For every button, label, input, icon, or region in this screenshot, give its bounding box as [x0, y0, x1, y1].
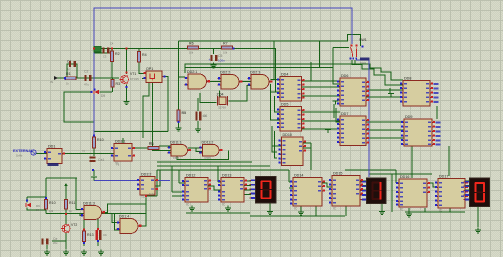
wire DD3:2 right a	[155, 170, 160, 186]
wire VD2 top link	[27, 196, 46, 198]
wire gate DD1:4 in a	[112, 214, 121, 223]
wire OP1 pin2 stub	[142, 77, 146, 79]
svg-text:Ca1: Ca1	[98, 158, 104, 162]
wire top rail outer y=41 over SW1	[179, 35, 361, 47]
wire R9 gnd stub	[178, 121, 180, 126]
generator EXTERNAL input	[13, 149, 36, 158]
node R13 bottom	[83, 242, 85, 244]
wire R11 top drop	[45, 178, 47, 200]
capacitor Ce	[42, 237, 58, 244]
svg-text:47u: 47u	[84, 83, 89, 87]
ground gnd C5	[211, 63, 217, 68]
resistor R4	[137, 52, 146, 63]
wire DD16 gnd drop	[408, 208, 410, 212]
wire DD6-DD8 b	[366, 96, 403, 98]
node R7 out	[233, 48, 235, 50]
wire DD4-DD5 cascade a	[275, 96, 281, 112]
wire disp1 a	[244, 180, 251, 182]
svg-text:R2: R2	[115, 52, 120, 56]
wire DD6 feed v	[310, 62, 312, 81]
wire DD12 in c	[172, 195, 185, 197]
wire DD1:4 out up	[139, 194, 146, 226]
wire bus A to DD8 staircase	[185, 64, 403, 80]
wire node NdV stub	[146, 195, 157, 197]
wire gate DD1:4 in b	[115, 214, 121, 230]
svg-text:DD8: DD8	[404, 77, 411, 81]
wire DD5-DD7 q3	[302, 128, 340, 130]
diode VD1	[94, 90, 106, 98]
wire DD7 top feed	[336, 108, 340, 122]
wire DD14 in a	[289, 181, 293, 183]
capacitor C1	[69, 61, 76, 67]
wire bottom trunk analog	[94, 131, 168, 133]
ground gnd HG2	[379, 209, 385, 214]
svg-text:K555: K555	[173, 156, 180, 160]
wire blue clock net: left vertical + top rail + switch drop	[94, 8, 352, 137]
node rail-blue junction	[93, 48, 95, 50]
wire crystal to gate3 input	[229, 86, 252, 102]
wire gate out up	[105, 204, 146, 212]
resistor R13	[82, 231, 93, 242]
wire rail drop x=274	[273, 41, 275, 79]
svg-text:1M: 1M	[182, 111, 186, 115]
wire R3 top stub	[112, 78, 114, 80]
svg-text:R4: R4	[142, 53, 147, 57]
IC DD16	[396, 175, 430, 211]
label DD1 sub-label	[48, 163, 59, 166]
wire DD16 feed v	[395, 170, 397, 183]
wire SW1 left contact feed	[333, 47, 349, 49]
wire bus B	[185, 67, 333, 69]
wire gen to DD1	[36, 153, 47, 155]
svg-text:DD11:1: DD11:1	[170, 140, 182, 144]
wire SW1 pole drop 2	[354, 60, 356, 65]
ground gnd DD16	[406, 212, 412, 217]
node VD1 left	[94, 89, 96, 91]
wire VT1 emitter	[126, 85, 128, 100]
wire rail drop x=319.5	[319, 41, 321, 68]
svg-text:D9: D9	[36, 204, 40, 208]
svg-text:VT2: VT2	[71, 223, 77, 227]
wire DD5-DD10 cascade	[272, 126, 277, 152]
wire Ca1 to pwr	[93, 170, 95, 176]
svg-text:VT1: VT1	[130, 72, 136, 76]
label SW1 sub-label	[360, 58, 369, 61]
svg-text:DD3:2: DD3:2	[141, 172, 151, 176]
svg-text:IN: IN	[50, 80, 53, 84]
svg-text:R6: R6	[189, 42, 194, 46]
wire gate3 to DD4	[271, 79, 281, 81]
wire DD16 bus drop	[424, 208, 426, 212]
node NdV	[145, 195, 147, 197]
svg-text:R11: R11	[69, 201, 75, 205]
wire DD17 bus drop	[449, 208, 451, 212]
wire blue net to DD3:2 pin (horizontal y=180.5)	[94, 180, 140, 182]
7-segment display HG2	[360, 178, 386, 205]
wire DD10 out drop	[310, 143, 312, 170]
resistor R11	[44, 200, 55, 210]
wire C6 top	[197, 98, 199, 111]
wire DD11:2 in b jog	[196, 148, 203, 152]
wire DD6 top feed	[333, 48, 340, 85]
wire OP1 drop to DD11:1	[153, 83, 172, 151]
svg-text:DD9: DD9	[405, 115, 412, 119]
crystal ZQ4	[217, 93, 228, 106]
svg-text:DD17: DD17	[439, 175, 448, 179]
wire trunk drop DD12a	[178, 170, 180, 183]
wire R12 bottom to trunk	[65, 209, 67, 214]
svg-text:DD6: DD6	[341, 74, 348, 78]
svg-text:DD5: DD5	[281, 103, 288, 107]
IC DD15	[329, 172, 363, 211]
wire DD15 bus drop	[345, 206, 347, 216]
svg-text:DD1:4: DD1:4	[119, 214, 129, 218]
wire DD12-DD13 link	[208, 186, 221, 190]
logic gate DD2:1	[185, 70, 211, 89]
wire DD4-DD6 q3	[302, 95, 340, 97]
svg-text:DD16: DD16	[400, 175, 409, 179]
wire top rail inner y=48.5	[94, 49, 276, 93]
wire DD11 cross loop	[177, 150, 229, 159]
svg-text:32768: 32768	[218, 106, 226, 110]
IC DD13	[218, 174, 247, 207]
IC DD1	[44, 145, 65, 164]
wire DD10 out a	[303, 142, 311, 144]
wire DD5-DD7 q2	[302, 120, 340, 122]
resistor R12	[64, 200, 75, 210]
svg-text:R10: R10	[49, 201, 56, 205]
wire Ce gnd drop	[46, 245, 48, 249]
svg-text:C4: C4	[110, 42, 114, 46]
svg-text:DD11:3: DD11:3	[83, 201, 95, 205]
resistor R5	[177, 110, 186, 121]
wire R12 top drop	[65, 184, 67, 199]
node R13 top	[83, 229, 85, 231]
node C7 bottom	[97, 240, 99, 242]
wire DD4-DD6 q2	[302, 86, 340, 88]
svg-text:DD13: DD13	[222, 174, 231, 178]
wire bottom-left trunk	[46, 213, 146, 215]
capacitor C5	[211, 54, 223, 61]
wire bottom bus right	[405, 211, 465, 213]
wire VT2 emitter	[65, 233, 67, 246]
wire DD4-DD6 q1	[302, 80, 340, 82]
wire DD7-DD9 c	[366, 137, 404, 139]
wire gate DD11:3 feed v	[75, 178, 77, 210]
resistor R8	[148, 142, 159, 150]
wire gate DD11:3 in b	[80, 214, 84, 216]
diode VD2	[25, 203, 40, 208]
svg-text:DD11:2: DD11:2	[202, 140, 214, 144]
wire OP1 out to divider	[162, 77, 168, 132]
svg-text:NdV: NdV	[149, 192, 155, 196]
node VT1 collector	[126, 72, 128, 74]
wire C6 gnd stub	[197, 121, 199, 127]
resistor R10	[92, 137, 103, 148]
wire bottom right trunk	[345, 169, 396, 171]
wire C7 bottom	[97, 240, 99, 246]
IC DD12	[182, 174, 211, 207]
svg-text:+: +	[209, 58, 211, 62]
wire DD14 bus drop	[315, 206, 317, 216]
wire DD11:1-2 link	[188, 147, 203, 149]
svg-text:DD1: DD1	[48, 145, 55, 149]
wire DD8 mid jog	[389, 88, 391, 93]
wire disp2 gnd drop	[381, 204, 383, 209]
resistor R1	[66, 72, 77, 80]
svg-text:SW1: SW1	[359, 38, 367, 42]
logic gate DD11:3	[81, 201, 106, 219]
wire DD14-DD15 link	[322, 183, 332, 187]
svg-text:R10: R10	[97, 138, 104, 142]
wire C5 drop	[213, 48, 215, 54]
wire DD16-DD17 link	[430, 183, 437, 187]
svg-text:DD10: DD10	[283, 133, 292, 137]
IC DD9	[401, 115, 440, 146]
node VT1 emitter	[126, 86, 128, 88]
wire R10 to Ca1	[93, 148, 95, 156]
ground gnd HG3	[475, 228, 481, 233]
svg-text:C2: C2	[84, 70, 88, 74]
svg-text:D9: D9	[101, 94, 105, 98]
node VT1 rail junction	[126, 48, 128, 50]
transistor VT2	[61, 223, 78, 233]
wire bias rail	[94, 52, 112, 54]
wire input signal	[57, 77, 119, 79]
svg-text:R8: R8	[149, 141, 153, 145]
IC DD3:1	[111, 140, 135, 166]
wire VT2 base drop	[65, 214, 67, 225]
transistor VT1	[119, 72, 136, 84]
wire R4 top stub	[138, 48, 140, 52]
resistor R3	[111, 80, 120, 88]
node R2 rail junction	[111, 48, 113, 50]
wire disp3 c	[465, 189, 470, 191]
ground gnd C7	[98, 250, 104, 255]
wire blue vertical from SW1 to display2 column	[356, 60, 369, 177]
svg-text:DD3:1: DD3:1	[115, 140, 125, 144]
wire DD13 in a	[218, 181, 221, 183]
svg-text:R13: R13	[87, 233, 94, 237]
svg-text:DD4: DD4	[281, 73, 288, 77]
wire disp1 d	[244, 194, 251, 196]
capacitor C7	[96, 230, 108, 240]
resistor R7	[222, 42, 233, 50]
svg-text:R3: R3	[116, 82, 121, 86]
wire bottom bus 2	[186, 212, 250, 214]
wire gate DD11:3 in a	[76, 209, 84, 211]
wire R11 bottom	[45, 210, 47, 214]
wire DD6-DD8 a	[366, 89, 403, 91]
wire C7 top	[97, 214, 99, 230]
wire gnd wire vt2	[65, 246, 67, 249]
svg-text:DD14: DD14	[294, 174, 303, 178]
logic gate DD1:4	[117, 214, 142, 233]
wire DD8-DD9 link	[436, 106, 438, 119]
wire disp3 d	[465, 194, 470, 196]
power rail stub pwr DD8	[388, 94, 394, 98]
wire R4 to OP1 pin	[139, 62, 146, 73]
7-segment display HG1	[249, 176, 276, 204]
capacitor Ca1	[90, 157, 105, 163]
node R10 top	[93, 135, 95, 137]
svg-text:xxxxx: xxxxx	[360, 62, 367, 65]
switch SW1	[350, 38, 367, 59]
IC DD6	[337, 74, 369, 106]
IC DD7	[337, 112, 369, 146]
power rail stub pwr DD10	[325, 130, 331, 134]
svg-text:Cb: Cb	[103, 233, 107, 237]
wire DD7-DD9 a	[366, 121, 404, 123]
wire NdV up	[156, 170, 158, 196]
wire R13 bottom	[83, 242, 85, 246]
capacitor C2	[84, 70, 91, 81]
svg-text:DD12: DD12	[186, 174, 195, 178]
logic gate DD11:2	[199, 140, 223, 156]
wire DD3:1 top stub	[122, 138, 124, 144]
node Ca1 bottom	[92, 169, 94, 171]
logic gate DD2:3	[248, 70, 273, 89]
power rail stub pwr div	[91, 177, 97, 181]
IC DD4	[277, 73, 305, 102]
node R5 bottom	[178, 121, 180, 123]
node VD1 left node	[91, 91, 93, 93]
svg-text:D9: D9	[36, 208, 40, 212]
wire right mid bus	[369, 173, 432, 175]
wire DD4 feedback	[271, 84, 281, 92]
wire gate2 to gate3	[241, 81, 251, 83]
resistor R6	[188, 42, 199, 50]
capacitor C3 (green block)	[94, 46, 101, 52]
wire C1 feedback loop	[67, 64, 77, 78]
svg-text:10k: 10k	[223, 51, 228, 55]
wire DD14 gnd drop	[300, 206, 302, 210]
svg-text:DD2:3: DD2:3	[250, 70, 260, 74]
wire disp3 a	[465, 180, 470, 182]
optocoupler OP1	[143, 67, 164, 83]
ground gnd Ce	[44, 250, 50, 255]
input terminal IN	[50, 76, 58, 84]
wire disp2 d	[360, 194, 367, 196]
wire DD14 in b	[289, 187, 293, 189]
svg-text:10k: 10k	[189, 51, 194, 55]
ground gnd R13	[81, 250, 87, 255]
wire VD2 loop	[27, 208, 46, 211]
svg-text:KT315: KT315	[130, 77, 139, 81]
svg-text:DD2:2: DD2:2	[220, 70, 230, 74]
wire VD1 row right	[100, 91, 113, 93]
wire DD2:1 in stub	[179, 76, 186, 78]
wire disp2 a	[360, 180, 367, 182]
power arrow R12	[64, 183, 68, 191]
logic gate DD11:1	[168, 140, 192, 156]
wire DD12 in b	[172, 191, 185, 193]
power rail stub pwr DD6-left	[333, 101, 339, 105]
svg-text:K555: K555	[205, 156, 212, 160]
svg-text:OP1: OP1	[146, 67, 153, 71]
wire DD10 in stub	[272, 145, 282, 147]
ground gnd VT2	[63, 250, 69, 255]
wire bottom bus 1	[250, 215, 345, 217]
wire DD14 feed	[288, 170, 290, 182]
ground gnd DD14	[298, 210, 304, 215]
svg-text:DD2:1: DD2:1	[187, 70, 197, 74]
wire R13 top	[83, 214, 85, 231]
wire mid trunk a	[157, 161, 252, 163]
wire preamp box top	[46, 177, 77, 179]
wire disp2 c	[360, 189, 367, 191]
wire mid trunk c	[157, 169, 289, 171]
node R1 left node	[64, 77, 66, 79]
capacitor C6	[196, 112, 208, 121]
wire R to DD11:1	[159, 145, 171, 147]
node R11 top	[45, 197, 47, 199]
IC DD3:2	[137, 172, 158, 199]
7-segment display HG3	[463, 178, 490, 208]
IC DD5	[277, 103, 305, 132]
svg-text:1kHz: 1kHz	[16, 154, 23, 158]
wire SW1 pole drop	[352, 60, 403, 85]
ground gnd HG1	[267, 209, 273, 214]
svg-text:Ce: Ce	[53, 237, 57, 241]
wire VD2 top stub	[26, 197, 28, 203]
resistor R2	[110, 51, 119, 62]
svg-text:10k: 10k	[49, 209, 54, 213]
svg-text:T1: T1	[116, 163, 120, 167]
wire DD10 in b	[275, 131, 278, 158]
wire DD6-DD7 link	[333, 104, 335, 118]
ground gnd R5	[176, 126, 182, 131]
IC DD8	[400, 77, 438, 107]
wire DD13 feed v	[217, 166, 219, 182]
wire DD9-DD17 v2	[448, 146, 450, 176]
wire crystal left feed	[200, 93, 217, 103]
svg-text:R1: R1	[66, 72, 71, 76]
wire R3 bottom stub	[112, 87, 114, 92]
wire blue segment DD3:2 to DD12	[155, 180, 170, 182]
wire R9 top	[178, 98, 180, 110]
svg-text:C3: C3	[103, 55, 107, 59]
wire disp1 c	[244, 189, 251, 191]
wire OP1 drop to DD3:1	[143, 83, 149, 139]
wire disp2 b	[360, 185, 367, 187]
wire Ce link	[52, 240, 66, 242]
svg-text:DD7: DD7	[341, 112, 348, 116]
IC DD14	[290, 174, 325, 211]
wire trunk drop DD12b	[171, 166, 173, 192]
node OP1 out	[164, 76, 166, 78]
node R12 bottom	[65, 213, 67, 215]
wire disp1 b	[244, 185, 251, 187]
capacitor C4	[103, 48, 110, 54]
ground gnd VT1	[124, 99, 130, 104]
wire disp1 gnd drop	[269, 203, 271, 209]
svg-text:C5: C5	[218, 54, 222, 58]
svg-text:DD15: DD15	[333, 172, 342, 176]
IC DD10	[279, 133, 307, 166]
svg-text:20u: 20u	[53, 241, 58, 245]
wire gate1 to gate2	[209, 81, 222, 83]
wire disp3 gnd drop	[477, 207, 479, 227]
svg-text:ZQ4: ZQ4	[217, 93, 224, 97]
wire DD9-DD16 v1	[411, 146, 413, 178]
wire VD1 feedback loop	[64, 92, 94, 122]
svg-text:100n: 100n	[218, 59, 225, 63]
wire DD16 in stub	[396, 182, 401, 184]
ground gnd DD13	[225, 206, 231, 211]
svg-text:C6: C6	[203, 114, 207, 118]
wire rail drop x=178.5	[178, 41, 180, 110]
